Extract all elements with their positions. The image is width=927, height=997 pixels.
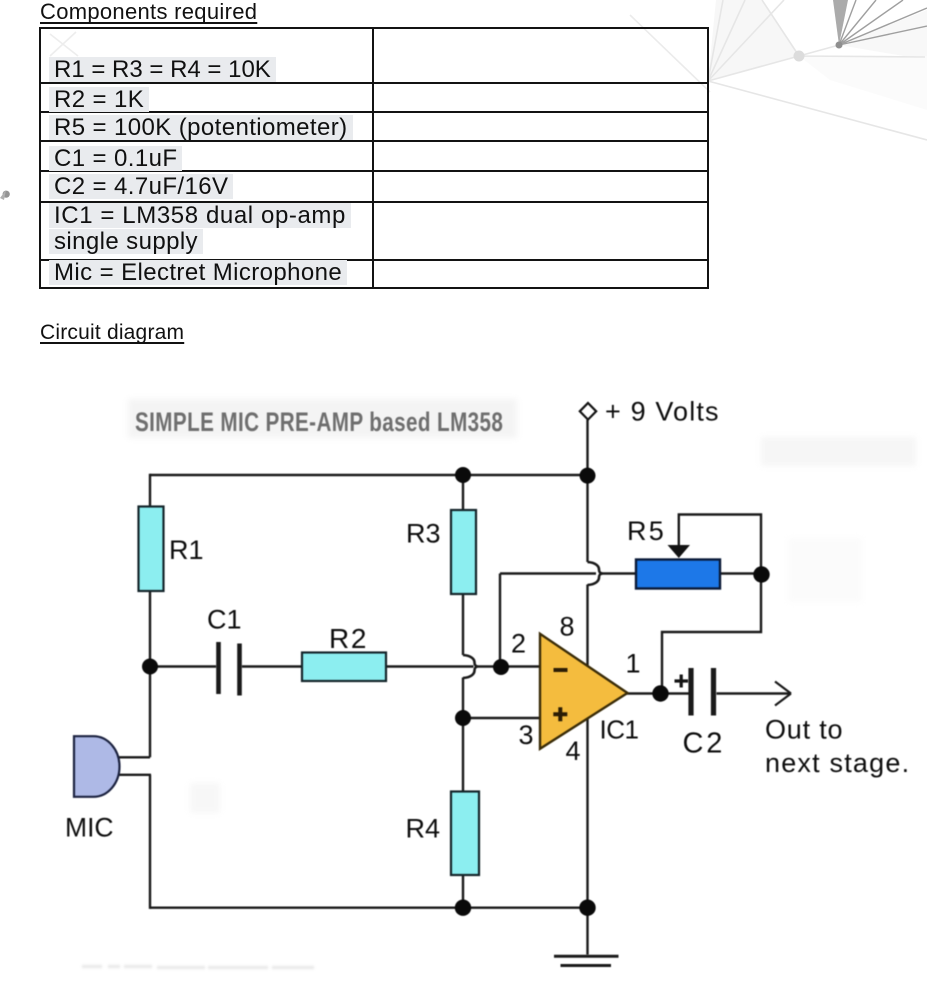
svg-text:R5: R5	[627, 516, 666, 546]
svg-text:2: 2	[511, 629, 526, 659]
svg-text:R1: R1	[169, 535, 204, 565]
svg-text:C2: C2	[683, 728, 726, 760]
svg-text:+ 9 Volts: + 9 Volts	[605, 397, 720, 427]
svg-text:R4: R4	[406, 814, 441, 844]
svg-text:R2: R2	[329, 623, 368, 654]
svg-text:C1: C1	[207, 605, 242, 635]
svg-text:IC1: IC1	[600, 715, 639, 745]
svg-text:Out to: Out to	[765, 715, 843, 745]
svg-text:MIC: MIC	[65, 813, 114, 843]
svg-text:8: 8	[560, 612, 575, 642]
svg-text:1: 1	[626, 649, 641, 679]
svg-text:4: 4	[566, 736, 581, 766]
svg-text:3: 3	[519, 720, 534, 750]
svg-text:SIMPLE MIC PRE-AMP based LM358: SIMPLE MIC PRE-AMP based LM358	[135, 408, 503, 438]
svg-text:R3: R3	[406, 519, 441, 549]
svg-text:next stage.: next stage.	[765, 748, 910, 778]
